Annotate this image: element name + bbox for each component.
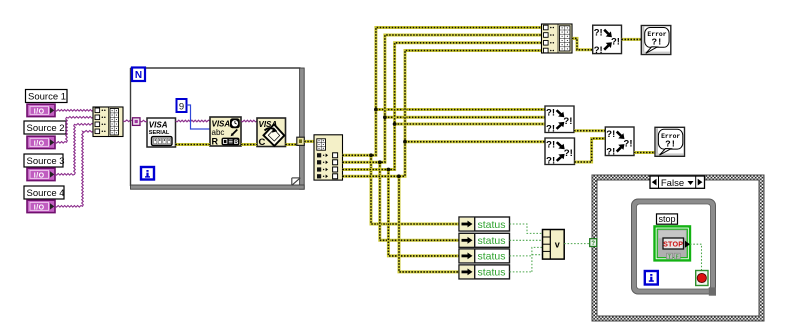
wire Merge C out to handler: [634, 151, 655, 154]
svg-text:B: B: [234, 139, 239, 146]
label Source 4: [24, 186, 65, 199]
wire Merge B out to Merge C: [575, 139, 606, 163]
svg-text:9: 9: [179, 101, 184, 112]
VISA Configure Serial Port node: [147, 118, 176, 147]
Compound Arithmetic (OR): [543, 230, 565, 260]
VISA resource name control Source 3 (I/O): [27, 168, 55, 180]
label Source 2: [24, 121, 66, 134]
wire error: Close to output tunnel: [286, 143, 298, 146]
svg-text:?!: ?!: [606, 129, 615, 140]
Merge Errors C: [605, 127, 634, 158]
svg-text:SERIAL: SERIAL: [149, 130, 170, 136]
svg-text:VISA: VISA: [212, 120, 231, 129]
Unbundle by Name: status 2: [459, 233, 510, 247]
VISA Read node: [210, 117, 241, 147]
wire status2 to OR: [510, 239, 543, 241]
svg-text:F: F: [676, 254, 679, 260]
While Loop iteration arrow: [709, 287, 716, 295]
svg-text:?!: ?!: [546, 124, 555, 134]
svg-text:Source 3: Source 3: [27, 156, 65, 167]
svg-text:Source 1: Source 1: [28, 92, 66, 103]
wire VISA name Source1 to Build Array: [55, 110, 94, 112]
svg-text:status: status: [477, 267, 505, 279]
wire VISA name Source3 to Build Array: [55, 124, 94, 176]
For Loop output tunnel (error): [297, 137, 305, 145]
wire error1 up to Build Array: [343, 28, 542, 156]
svg-text:stop: stop: [658, 214, 675, 224]
wire stop to conditional terminal: [690, 244, 702, 270]
Merge Errors B: [545, 138, 574, 166]
svg-text:STOP: STOP: [663, 239, 683, 248]
wire error4 up to Build Array: [343, 51, 542, 177]
svg-text:?!: ?!: [665, 139, 676, 149]
svg-text:status: status: [477, 251, 505, 263]
svg-text:?!: ?!: [611, 37, 620, 48]
Case Structure border: [592, 175, 764, 321]
For Loop folded corner: [292, 178, 300, 185]
VISA Close node: [257, 118, 286, 148]
wire merged error to handler top: [622, 38, 642, 41]
wire error3 up to Build Array: [343, 43, 542, 170]
While Loop iteration terminal i: [645, 271, 658, 285]
svg-text:T: T: [668, 254, 671, 260]
svg-text:?!: ?!: [594, 27, 603, 38]
svg-text:?!: ?!: [652, 38, 663, 48]
wire status4 to riser: [510, 271, 532, 273]
stop button boolean terminal: [655, 226, 691, 260]
svg-text:?!: ?!: [546, 108, 555, 118]
svg-text:?!: ?!: [624, 138, 633, 149]
Unbundle by Name: status 3: [459, 249, 510, 263]
wire byte count 9 to VISA Read: [187, 105, 211, 129]
label Source 3: [24, 154, 65, 167]
wire error2 down to status 2: [380, 162, 459, 240]
svg-text:I/O: I/O: [34, 173, 45, 180]
svg-text:Source 4: Source 4: [27, 188, 65, 199]
For Loop input tunnel (auto-index): [133, 118, 141, 126]
svg-text:False: False: [661, 178, 684, 189]
wire error: Read to Close: [241, 143, 257, 146]
label stop: [657, 214, 678, 224]
Merge Errors (top): [593, 25, 622, 56]
wire error3 down to status 3: [388, 170, 459, 256]
svg-text:VISA: VISA: [149, 121, 168, 130]
wire error array to Merge Errors top: [572, 38, 593, 49]
svg-text:?!: ?!: [606, 147, 615, 158]
wire status3 to OR: [510, 255, 532, 257]
svg-text:R: R: [212, 137, 219, 147]
wire Merge A out to Merge C: [574, 129, 605, 132]
svg-text:Source 2: Source 2: [27, 123, 65, 134]
svg-text:I/O: I/O: [34, 109, 45, 116]
svg-text:?!: ?!: [546, 156, 555, 166]
svg-text:status: status: [477, 219, 505, 231]
wire error4 down to status 4: [399, 176, 459, 272]
wire OR result to case tunnel: [564, 243, 590, 245]
wire status4 to OR input4: [532, 254, 543, 256]
Case input tunnel (boolean): [590, 239, 597, 247]
Build Array (sources): [93, 107, 123, 137]
While Loop conditional terminal (stop sign): [696, 271, 708, 286]
wire VISA name Read to Close: [241, 120, 257, 122]
svg-text:I/O: I/O: [34, 205, 45, 212]
wire error: Configure Serial to Read: [176, 143, 211, 146]
Unbundle by Name: status 1: [459, 217, 510, 231]
label Source 1: [26, 90, 68, 103]
For Loop border: [131, 68, 305, 189]
svg-text:C: C: [259, 137, 266, 148]
Index Array node: [314, 135, 343, 180]
VISA resource name control Source 4 (I/O): [27, 200, 55, 212]
Unbundle by Name: status 4: [459, 265, 510, 279]
svg-text:I/O: I/O: [34, 141, 45, 148]
Simple Error Handler (top): [641, 26, 671, 55]
VISA resource name control Source 1 (I/O): [27, 104, 55, 116]
wire error2 to Merge Errors A: [385, 116, 545, 119]
svg-text:status: status: [477, 235, 505, 247]
wire status1 to OR: [510, 224, 543, 233]
svg-text:?!: ?!: [546, 140, 555, 150]
wire VISA name Configure Serial to VISA Read: [176, 120, 211, 122]
wire error1 to Merge Errors A: [376, 108, 545, 111]
For Loop count terminal N: [132, 68, 145, 82]
svg-text:N: N: [135, 70, 142, 81]
wire error1 down to status 1: [371, 155, 459, 224]
wire array of VISA names to For Loop tunnel: [123, 120, 133, 122]
wire error2 up to Build Array: [343, 35, 542, 162]
wire status3/4 riser to OR: [532, 247, 543, 272]
numeric constant 9: [177, 99, 187, 112]
wire error4 to Merge Errors B: [405, 140, 545, 143]
wire VISA name into Configure Serial: [140, 120, 147, 122]
For Loop iteration terminal i: [141, 167, 154, 180]
VISA resource name control Source 2 (I/O): [27, 136, 55, 148]
While Loop border: [632, 199, 716, 294]
wire error3 to Merge Errors A: [395, 123, 545, 126]
Case selector label False: [650, 176, 705, 189]
svg-text:?!: ?!: [594, 45, 603, 56]
Build Array (errors): [542, 24, 573, 53]
wire VISA name Source4 to Build Array: [55, 131, 94, 208]
Merge Errors A: [545, 106, 574, 134]
svg-text:v: v: [555, 240, 560, 250]
svg-text:?: ?: [591, 241, 595, 247]
svg-text:?!: ?!: [564, 148, 573, 158]
Simple Error Handler (bottom): [655, 127, 685, 156]
wire VISA name Source2 to Build Array: [55, 117, 94, 144]
svg-text:?!: ?!: [563, 116, 572, 126]
wire junctions: [369, 153, 373, 157]
wire error array tunnel to Index Array: [304, 140, 314, 143]
